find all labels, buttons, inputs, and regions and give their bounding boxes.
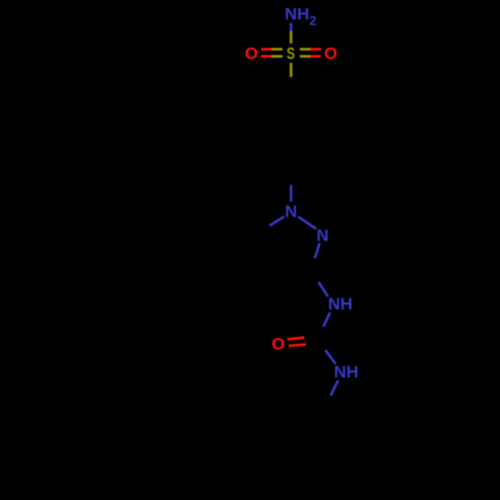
svg-text:N: N [316,226,328,245]
svg-text:O: O [272,335,285,354]
svg-text:N: N [285,202,297,221]
wire N1-C5 bond nitrogen half [270,217,285,226]
svg-text:O: O [245,44,258,63]
wire NH-C(urea) bond nitrogen half [323,312,330,326]
wire C3-NH bond nitrogen half [319,282,328,297]
wire S=O left double bond lower line [261,55,272,58]
svg-text:NH: NH [328,295,353,314]
wire N1-N2 bond [298,217,316,229]
svg-text:S: S [286,44,295,63]
wire S=O right double bond upper line [300,48,310,51]
svg-text:O: O [324,44,337,63]
wire NH-CH3 bond nitrogen half [331,380,338,395]
wire C=O double bond lower line [289,344,306,345]
svg-text:NH: NH [285,5,310,24]
wire C(urea)-NH bond nitrogen half [325,350,336,364]
wire C=O double bond upper line [287,337,304,339]
wire N-S bond sulfur half [290,31,293,43]
wire S-phenyl bond sulfur half [290,63,293,77]
svg-text:NH: NH [334,363,359,382]
wire S=O left double bond upper line [261,48,272,51]
wire S=O right double bond lower line [300,55,310,58]
wire N2-C3 bond nitrogen half [315,243,320,258]
svg-text:2: 2 [310,14,317,28]
wire phenyl-N1 bond nitrogen half [290,185,293,202]
wire N-S bond blue half [290,23,293,31]
